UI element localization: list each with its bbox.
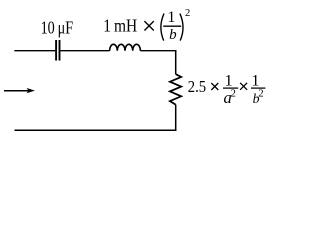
svg-text:10 μF: 10 μF <box>41 17 74 37</box>
arrow: input current indicator <box>4 88 35 93</box>
capacitor C1 plates <box>56 40 59 61</box>
inductor L1 (4 humps) <box>110 44 141 50</box>
label: 2.5 x 1/a^2 x 1/b^2 (resistor value) <box>188 71 266 107</box>
svg-text:2.5: 2.5 <box>188 77 206 96</box>
svg-text:2: 2 <box>230 87 235 99</box>
svg-text:1 mH: 1 mH <box>103 16 137 36</box>
resistor R1 zigzag <box>170 74 181 104</box>
wire: capacitor to inductor <box>60 50 109 52</box>
wire: top-left segment (open end to capacitor) <box>14 50 55 52</box>
svg-text:b: b <box>169 27 177 43</box>
svg-text:1: 1 <box>167 9 175 26</box>
wire: right vertical lower <box>175 105 177 131</box>
svg-text:2: 2 <box>185 8 190 19</box>
svg-text:2: 2 <box>258 87 263 99</box>
wire: bottom <box>15 129 177 131</box>
wire: inductor to top-right corner <box>140 50 176 52</box>
wire: right vertical upper <box>175 50 177 74</box>
label: 1 mH x (1/b)^2 (inductor value) <box>103 8 190 43</box>
